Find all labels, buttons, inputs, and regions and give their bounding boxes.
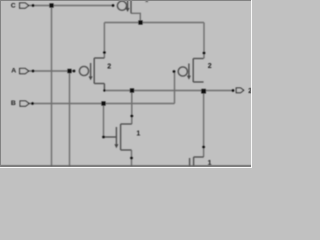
node dot left pmos gate xyxy=(73,70,76,73)
border left shadow xyxy=(0,0,2,168)
wire output to br-nmos drain riser xyxy=(203,91,205,157)
wire A riser vertical xyxy=(69,71,71,166)
border top shadow xyxy=(0,0,252,2)
pin B xyxy=(20,101,29,106)
wire nmos1 source down xyxy=(131,150,133,166)
wire top rail horizontal xyxy=(104,22,204,24)
junction A node xyxy=(67,69,71,73)
wire output net horizontal xyxy=(104,90,233,92)
node dot A pin xyxy=(32,70,35,73)
svg-text:1: 1 xyxy=(136,131,140,138)
node dot nmos1 gate xyxy=(102,136,105,139)
svg-text:B: B xyxy=(11,100,16,107)
node dot right pmos gate xyxy=(173,70,176,73)
wire B net horizontal xyxy=(29,103,175,105)
node dot C pin xyxy=(32,4,35,7)
wire output to nmos1 drain riser xyxy=(131,91,133,125)
border bottom highlight xyxy=(0,167,252,169)
node dot nmos1 drain xyxy=(130,115,133,118)
node dot output pin xyxy=(232,89,235,92)
transistor M1b nmos bottom-right (cut at bottom edge) xyxy=(190,157,204,166)
svg-text:2: 2 xyxy=(208,63,212,70)
wire B riser to right pmos gate xyxy=(174,72,176,104)
wire top rail right leg down to right pmos source xyxy=(203,23,205,59)
wire B riser to nmos1 gate xyxy=(103,104,105,138)
border right highlight xyxy=(251,0,253,168)
wire C riser vertical xyxy=(51,6,53,167)
node dot left pmos drain corner xyxy=(103,89,105,91)
wire top rail left leg down to left pmos source xyxy=(103,23,105,59)
pin C xyxy=(20,3,29,8)
wire top pmos drain dogleg xyxy=(131,13,140,22)
node dot B pin xyxy=(31,102,34,105)
transistor M2 right pmos xyxy=(178,59,203,83)
transistor M1 gate arrow xyxy=(114,144,118,148)
svg-text:C: C xyxy=(11,3,16,10)
transistor M2 right gate arrow xyxy=(187,76,191,80)
transistor M2 left gate arrow xyxy=(89,76,93,80)
wire C net horizontal xyxy=(29,5,113,7)
wire top edge tick xyxy=(146,0,148,2)
junction B node xyxy=(101,101,105,105)
transistor top pmos (cut at top edge) xyxy=(117,0,131,13)
junction top rail node xyxy=(138,20,142,24)
wire bottom rail xyxy=(0,165,252,167)
wire A net horizontal xyxy=(29,70,74,72)
junction C node xyxy=(49,3,53,7)
node dot right pmos source xyxy=(203,52,206,55)
transistor top pmos gate arrow xyxy=(126,8,130,12)
junction output-rightpmos node xyxy=(201,89,206,94)
pin A xyxy=(20,68,29,73)
node dot top pmos gate xyxy=(112,4,115,7)
node dot left pmos source xyxy=(103,51,106,54)
transistor M2 left pmos xyxy=(79,58,104,91)
pin OUT xyxy=(236,88,244,93)
node dot br nmos drain xyxy=(202,146,205,149)
junction output-nmos1 node xyxy=(130,88,134,92)
transistor M1 nmos middle xyxy=(104,124,132,150)
node dot nmos1 source xyxy=(130,157,133,160)
svg-text:A: A xyxy=(11,67,16,74)
svg-text:2: 2 xyxy=(107,63,111,70)
